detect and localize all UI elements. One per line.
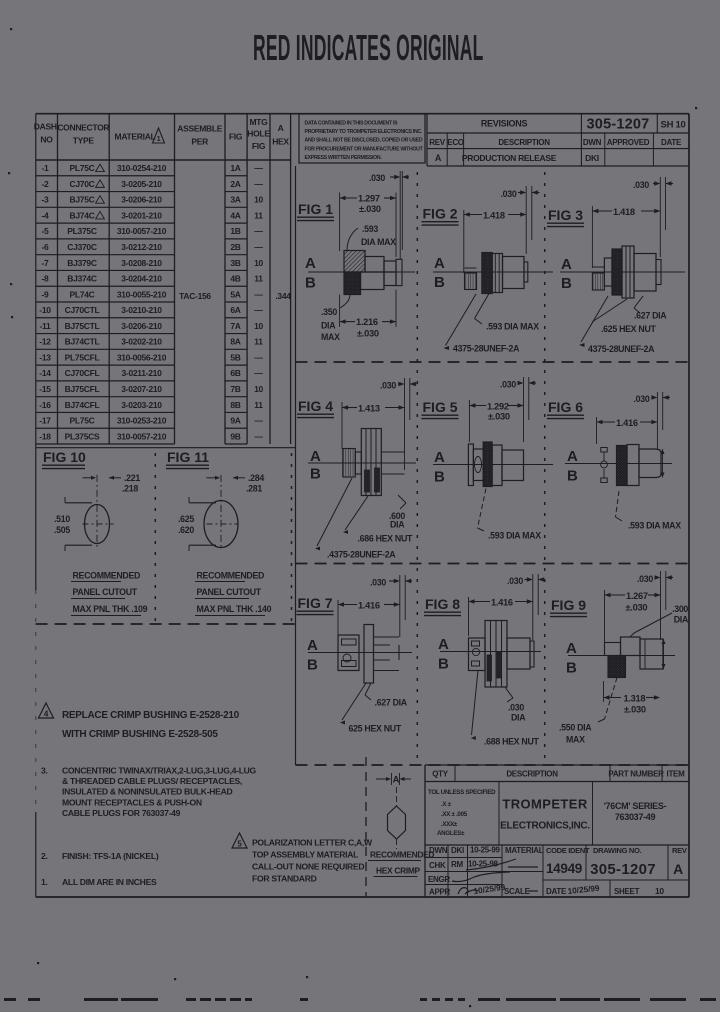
svg-text:BJ74CTL: BJ74CTL bbox=[65, 337, 100, 347]
svg-text:DWN: DWN bbox=[583, 138, 602, 147]
svg-text:DATA CONTAINED IN THIS DOCUMEN: DATA CONTAINED IN THIS DOCUMENT IS bbox=[305, 121, 399, 127]
svg-text:FIG 2: FIG 2 bbox=[423, 206, 458, 222]
fig9 label .300 DIA with leader bbox=[630, 604, 689, 637]
fig8 pin bbox=[530, 641, 534, 667]
svg-text:ELECTRONICS,INC.: ELECTRONICS,INC. bbox=[500, 821, 590, 832]
svg-text:11: 11 bbox=[254, 210, 263, 220]
svg-text:-2: -2 bbox=[42, 179, 50, 189]
svg-text:CABLE PLUGS FOR 763037-49: CABLE PLUGS FOR 763037-49 bbox=[62, 808, 181, 818]
svg-text:B: B bbox=[307, 657, 318, 674]
svg-text:.030: .030 bbox=[633, 180, 649, 190]
panel cutout section bottom dashed bbox=[36, 623, 296, 625]
fig11 flat width marks bbox=[189, 497, 216, 551]
fig7 dim .030 bbox=[370, 575, 412, 637]
svg-text:10/25/99: 10/25/99 bbox=[567, 884, 600, 896]
svg-text:A: A bbox=[278, 123, 284, 133]
fig5 body bbox=[502, 450, 524, 481]
svg-text:1B: 1B bbox=[230, 226, 240, 236]
chk row bbox=[429, 859, 516, 870]
svg-text:.218: .218 bbox=[122, 484, 138, 494]
fig10 dim .221 bbox=[83, 473, 141, 494]
svg-text:.X ±: .X ± bbox=[441, 801, 452, 808]
figure area dashed column separator 1 bbox=[416, 172, 418, 765]
fig2 rear ferrule bbox=[465, 268, 477, 290]
svg-text:PART NUMBER: PART NUMBER bbox=[608, 770, 664, 779]
svg-text:MTG: MTG bbox=[250, 117, 269, 127]
fig10 recommended panel cutout note bbox=[71, 571, 148, 616]
svg-text:CHK: CHK bbox=[429, 861, 446, 870]
scan edge artifact dashes bbox=[4, 998, 716, 1001]
code ident cell bbox=[546, 846, 590, 876]
fig7 jack body bbox=[338, 635, 359, 671]
svg-text:11: 11 bbox=[254, 400, 263, 410]
svg-text:3-0204-210: 3-0204-210 bbox=[121, 274, 162, 284]
fig8 centerline bbox=[440, 651, 541, 653]
note 1 text bbox=[41, 877, 157, 887]
svg-text:BJ379C: BJ379C bbox=[67, 258, 97, 268]
svg-text:.625: .625 bbox=[178, 514, 194, 524]
fig1 label .350 DIA MAX with leader bbox=[321, 295, 350, 343]
svg-text:.593: .593 bbox=[362, 224, 378, 234]
svg-text:2.: 2. bbox=[41, 851, 48, 861]
svg-text:FIG 10: FIG 10 bbox=[43, 449, 86, 465]
fig8 label bbox=[424, 596, 461, 616]
fig2 knurl (hatched) bbox=[482, 253, 492, 294]
fig1 A B labels bbox=[305, 255, 316, 292]
svg-text:.550 DIA: .550 DIA bbox=[559, 723, 592, 733]
fig8 label .688 HEX NUT with leader bbox=[471, 670, 540, 747]
svg-text:.625 HEX NUT: .625 HEX NUT bbox=[601, 324, 657, 334]
svg-text:CJ70CFL: CJ70CFL bbox=[65, 368, 100, 378]
svg-text:.593 DIA MAX: .593 DIA MAX bbox=[628, 521, 681, 531]
revisions block grid bbox=[427, 114, 689, 166]
svg-text:RECOMMENDED: RECOMMENDED bbox=[197, 571, 265, 581]
fig6 label .593 DIA MAX with dashed leader bbox=[616, 491, 682, 531]
svg-text:A: A bbox=[567, 448, 578, 465]
svg-text:7B: 7B bbox=[230, 384, 240, 394]
svg-text:PL75CFL: PL75CFL bbox=[65, 352, 100, 362]
svg-text:CALL-OUT NONE REQUIRED: CALL-OUT NONE REQUIRED bbox=[252, 862, 364, 872]
fig5 knurl (hatched) bbox=[483, 442, 492, 487]
fig6 shell bbox=[639, 449, 661, 478]
fig3 label .625 HEX NUT with leader bbox=[592, 299, 657, 334]
fig8 label .030 DIA with leader bbox=[505, 687, 526, 723]
svg-text:-10: -10 bbox=[39, 305, 51, 315]
svg-text:RECOMMENDED: RECOMMENDED bbox=[73, 571, 141, 581]
fig4 centerline bbox=[308, 462, 416, 464]
svg-text:FIG 7: FIG 7 bbox=[298, 595, 333, 611]
fig1 dim .030 bbox=[369, 171, 409, 260]
svg-text:DKI: DKI bbox=[585, 153, 599, 163]
svg-text:HEX CRIMP: HEX CRIMP bbox=[376, 866, 421, 876]
svg-text:REPLACE CRIMP BUSHING E-2528-2: REPLACE CRIMP BUSHING E-2528-210 bbox=[62, 710, 240, 721]
svg-text:763037-49: 763037-49 bbox=[615, 812, 656, 822]
svg-text:PANEL CUTOUT: PANEL CUTOUT bbox=[197, 587, 262, 597]
svg-text:1.416: 1.416 bbox=[616, 418, 638, 428]
svg-text:—: — bbox=[254, 305, 263, 315]
svg-text:1.318: 1.318 bbox=[624, 694, 646, 704]
svg-text:3-0205-210: 3-0205-210 bbox=[121, 179, 162, 189]
svg-text:3-0206-210: 3-0206-210 bbox=[121, 321, 162, 331]
svg-text:±.030: ±.030 bbox=[626, 603, 648, 613]
fig4 rear tube bbox=[343, 449, 356, 478]
svg-text:TROMPETER: TROMPETER bbox=[502, 797, 587, 812]
svg-text:DESCRIPTION: DESCRIPTION bbox=[506, 770, 558, 779]
appr row with signature bbox=[429, 883, 506, 897]
note 3 text bbox=[41, 766, 257, 818]
svg-text:PL75C: PL75C bbox=[70, 163, 95, 173]
fig1 body bbox=[361, 257, 385, 290]
fig2 nose bbox=[524, 262, 528, 282]
svg-text:.284: .284 bbox=[248, 473, 264, 483]
fig7 centerline bbox=[308, 652, 412, 654]
fig6 bayonet lugs bbox=[601, 448, 608, 483]
svg-text:2A: 2A bbox=[230, 179, 240, 189]
svg-text:DESCRIPTION: DESCRIPTION bbox=[498, 138, 550, 147]
fig2 ring bbox=[492, 254, 502, 293]
fig3 label 4375-28UNEF-2A with leader bbox=[579, 296, 655, 354]
svg-text:TYPE: TYPE bbox=[73, 136, 95, 146]
svg-text:PRODUCTION RELEASE: PRODUCTION RELEASE bbox=[462, 153, 557, 163]
fig4 mid collar bbox=[355, 452, 361, 474]
hex crimp A dimension bbox=[376, 773, 411, 786]
svg-text:BJ75CTL: BJ75CTL bbox=[65, 321, 100, 331]
svg-text:5B: 5B bbox=[230, 352, 240, 362]
svg-text:.686 HEX NUT: .686 HEX NUT bbox=[358, 534, 414, 544]
svg-text:—: — bbox=[254, 416, 263, 426]
svg-text:TOP ASSEMBLY MATERIAL: TOP ASSEMBLY MATERIAL bbox=[252, 850, 358, 860]
svg-text:DIA: DIA bbox=[511, 713, 526, 723]
fig1 label bbox=[297, 201, 334, 221]
fig3 A B labels bbox=[561, 256, 572, 292]
banner: RED INDICATES ORIGINAL bbox=[253, 28, 484, 69]
svg-text:SH 10: SH 10 bbox=[661, 120, 686, 131]
svg-text:.030: .030 bbox=[500, 380, 516, 390]
fig8 lockwasher segments (dark) bbox=[487, 652, 502, 681]
svg-text:1.418: 1.418 bbox=[483, 211, 505, 221]
svg-text:1: 1 bbox=[157, 136, 161, 143]
svg-text:—: — bbox=[254, 431, 263, 441]
svg-text:DATE: DATE bbox=[661, 138, 682, 147]
fig4 dim 1.413 bbox=[342, 402, 405, 449]
svg-text:3A: 3A bbox=[230, 195, 240, 205]
fig4 front shell outline bbox=[381, 452, 404, 474]
svg-text:1.416: 1.416 bbox=[491, 598, 513, 608]
svg-text:10: 10 bbox=[254, 195, 263, 205]
svg-text:FIG 11: FIG 11 bbox=[167, 449, 209, 465]
tolerance block bbox=[428, 789, 496, 837]
svg-text:A: A bbox=[305, 255, 316, 272]
svg-text:.627 DIA: .627 DIA bbox=[634, 311, 667, 321]
svg-text:-18: -18 bbox=[39, 431, 51, 441]
svg-text:PL75C: PL75C bbox=[70, 416, 95, 426]
date cell bbox=[546, 884, 600, 896]
fig1 knurled nut (hatched) bbox=[344, 251, 365, 273]
svg-text:AND SHALL NOT BE DISCLOSED, CO: AND SHALL NOT BE DISCLOSED, COPIED OR US… bbox=[305, 138, 423, 144]
svg-text:A: A bbox=[673, 861, 683, 877]
svg-text:9B: 9B bbox=[230, 431, 240, 441]
svg-text:-14: -14 bbox=[39, 368, 51, 378]
svg-text:4375-28UNEF-2A: 4375-28UNEF-2A bbox=[588, 344, 655, 354]
svg-text:1.: 1. bbox=[41, 877, 48, 887]
fig9 dim 1.267 +-.030 bbox=[605, 590, 661, 642]
svg-text:B: B bbox=[434, 469, 445, 486]
fig7 label 625 HEX NUT with leader bbox=[340, 683, 402, 734]
svg-text:REVISIONS: REVISIONS bbox=[481, 119, 528, 129]
fig10 dim .510 bbox=[54, 514, 70, 535]
fig3 rear ferrule bbox=[592, 267, 604, 290]
svg-text:CJ370C: CJ370C bbox=[67, 242, 97, 252]
fig8 A B labels bbox=[438, 636, 449, 673]
svg-text:'76CM' SERIES-: '76CM' SERIES- bbox=[604, 801, 667, 811]
fig11 label bbox=[166, 449, 209, 469]
svg-text:-5: -5 bbox=[42, 226, 50, 236]
svg-text:-13: -13 bbox=[39, 352, 51, 362]
svg-text:.030: .030 bbox=[501, 189, 517, 199]
svg-text:POLARIZATION LETTER C,A,W: POLARIZATION LETTER C,A,W bbox=[252, 838, 373, 848]
svg-text:.627 DIA: .627 DIA bbox=[375, 698, 408, 708]
svg-text:FIG 5: FIG 5 bbox=[423, 399, 458, 415]
note 4 text bbox=[62, 710, 240, 740]
sheet right border bbox=[688, 114, 690, 897]
svg-text:DATE: DATE bbox=[546, 887, 567, 896]
hex crimp caption bbox=[368, 850, 434, 877]
fig9 rear body upper bbox=[605, 643, 621, 656]
svg-text:A: A bbox=[561, 256, 572, 273]
fig11 recommended panel cutout note bbox=[195, 571, 272, 616]
svg-text:11: 11 bbox=[254, 337, 263, 347]
svg-text:9A: 9A bbox=[230, 416, 240, 426]
svg-text:1.416: 1.416 bbox=[358, 601, 380, 611]
svg-text:REV: REV bbox=[672, 846, 687, 855]
fig9 A B labels bbox=[566, 640, 577, 677]
svg-text:3-0202-210: 3-0202-210 bbox=[121, 337, 162, 347]
svg-text:BJ75CFL: BJ75CFL bbox=[65, 384, 100, 394]
fig5 rear flange plate bbox=[468, 444, 473, 486]
svg-text:10: 10 bbox=[655, 886, 664, 896]
svg-text:-9: -9 bbox=[42, 289, 50, 299]
svg-text:4375-28UNEF-2A: 4375-28UNEF-2A bbox=[453, 344, 520, 354]
fig3 dim 1.418 bbox=[592, 206, 660, 268]
svg-text:.030: .030 bbox=[637, 574, 653, 584]
panel cutout section divider dashed bbox=[154, 453, 156, 624]
svg-text:.030: .030 bbox=[370, 578, 386, 588]
svg-text:-15: -15 bbox=[39, 384, 51, 394]
svg-text:MAX: MAX bbox=[566, 735, 585, 745]
revision row A bbox=[435, 153, 599, 163]
svg-text:±.030: ±.030 bbox=[488, 411, 510, 421]
svg-text:3-0206-210: 3-0206-210 bbox=[121, 195, 162, 205]
fig5 A B labels bbox=[434, 449, 445, 486]
revisions column headers bbox=[429, 138, 682, 147]
svg-text:305-1207: 305-1207 bbox=[590, 861, 656, 878]
fig2 A B labels bbox=[434, 255, 445, 291]
fig6 body bbox=[627, 445, 639, 486]
fig4 dim .030 bbox=[380, 378, 417, 470]
fig6 dim 1.416 bbox=[597, 417, 658, 444]
svg-text:.505: .505 bbox=[54, 525, 70, 535]
hex crimp column dashed boundary bbox=[365, 757, 367, 897]
svg-text:5A: 5A bbox=[230, 289, 240, 299]
svg-text:MATERIAL: MATERIAL bbox=[115, 132, 156, 142]
fig9 centerline bbox=[568, 655, 675, 657]
svg-text:.XXX±: .XXX± bbox=[441, 821, 458, 828]
svg-text:4: 4 bbox=[44, 710, 49, 719]
svg-text:6B: 6B bbox=[230, 368, 240, 378]
svg-text:1.297: 1.297 bbox=[358, 194, 380, 204]
svg-text:DASH-: DASH- bbox=[34, 122, 60, 132]
svg-text:QTY: QTY bbox=[432, 770, 449, 779]
svg-text:PER: PER bbox=[191, 137, 208, 147]
fig7 front body bbox=[374, 637, 400, 671]
svg-text:B: B bbox=[566, 660, 577, 677]
title block main grid bbox=[425, 782, 689, 898]
svg-text:310-0254-210: 310-0254-210 bbox=[117, 163, 167, 173]
parts table grid bbox=[36, 114, 291, 444]
fig9 label .550 DIA MAX with dashed leader bbox=[559, 678, 617, 745]
svg-text:1.267: 1.267 bbox=[626, 591, 648, 601]
fig9 dim .030 bbox=[637, 571, 673, 640]
fig10 flat width marks bbox=[65, 497, 92, 551]
svg-text:10: 10 bbox=[254, 258, 263, 268]
hex crimp hexagon bbox=[388, 806, 406, 839]
svg-text:-7: -7 bbox=[42, 258, 50, 268]
svg-text:PROPRIETARY TO TROMPETER ELECT: PROPRIETARY TO TROMPETER ELECTRONICS INC… bbox=[305, 129, 423, 135]
svg-text:CONNECTOR: CONNECTOR bbox=[57, 123, 109, 133]
proprietary notice box bbox=[299, 114, 425, 163]
svg-text:ANGLES±: ANGLES± bbox=[437, 830, 465, 837]
svg-text:FINISH: TFS-1A (NICKEL): FINISH: TFS-1A (NICKEL) bbox=[62, 851, 159, 861]
svg-text:SHEET: SHEET bbox=[614, 887, 640, 896]
figure area dashed bottom bbox=[296, 764, 690, 766]
panel cutout section right dashed bbox=[291, 453, 293, 624]
svg-text:A: A bbox=[434, 255, 445, 272]
svg-text:310-0253-210: 310-0253-210 bbox=[117, 416, 167, 426]
svg-text:DIA MAX: DIA MAX bbox=[361, 237, 396, 247]
svg-text:8B: 8B bbox=[230, 400, 240, 410]
fig10 centerlines bbox=[83, 475, 114, 550]
fig10 label bbox=[42, 449, 86, 469]
fig1 pin bbox=[396, 259, 402, 285]
note 5 text bbox=[252, 838, 373, 884]
svg-text:±.030: ±.030 bbox=[624, 705, 646, 715]
svg-text:RED INDICATES ORIGINAL: RED INDICATES ORIGINAL bbox=[253, 28, 484, 69]
svg-text:DIA: DIA bbox=[390, 520, 405, 530]
parts table header bbox=[34, 117, 290, 151]
fig4 label bbox=[297, 398, 334, 418]
svg-text:BJ74CFL: BJ74CFL bbox=[65, 400, 100, 410]
svg-text:DIA: DIA bbox=[321, 321, 336, 331]
svg-text:.300: .300 bbox=[672, 604, 688, 614]
svg-text:HEX: HEX bbox=[272, 137, 289, 147]
svg-text:TAC-156: TAC-156 bbox=[179, 291, 211, 301]
svg-text:A: A bbox=[435, 153, 442, 163]
sheet left border bbox=[35, 114, 37, 897]
doc number 305-1207 bbox=[587, 117, 650, 133]
svg-text:310-0055-210: 310-0055-210 bbox=[117, 289, 167, 299]
sheet bottom border bbox=[36, 896, 689, 898]
svg-text:.221: .221 bbox=[124, 473, 140, 483]
figure area left boundary bbox=[295, 166, 297, 765]
svg-text:REV: REV bbox=[429, 138, 446, 147]
fig2 label .593 DIA MAX with leader bbox=[475, 294, 540, 332]
fig9 mid body bbox=[621, 637, 641, 656]
fig1 dim 1.297 +-.030 bbox=[340, 193, 396, 258]
svg-text:PANEL CUTOUT: PANEL CUTOUT bbox=[73, 587, 138, 597]
svg-text:8A: 8A bbox=[230, 337, 240, 347]
svg-text:10: 10 bbox=[254, 384, 263, 394]
svg-text:A: A bbox=[434, 449, 445, 466]
fig8 dim .030 bbox=[507, 574, 545, 640]
svg-text:4B: 4B bbox=[230, 274, 240, 284]
svg-text:.030: .030 bbox=[634, 394, 650, 404]
svg-text:RM: RM bbox=[451, 860, 463, 869]
panel cutout section top line bbox=[36, 447, 296, 449]
svg-text:5: 5 bbox=[237, 840, 242, 849]
fig11 dim .284 bbox=[207, 473, 265, 494]
svg-text:B: B bbox=[310, 466, 321, 483]
svg-text:APPR: APPR bbox=[429, 888, 451, 897]
svg-text:DIA: DIA bbox=[674, 615, 689, 625]
svg-text:-1: -1 bbox=[42, 163, 50, 173]
fig7 label bbox=[297, 595, 334, 615]
svg-text:.030: .030 bbox=[380, 381, 396, 391]
svg-text:—: — bbox=[254, 352, 263, 362]
svg-text:1.418: 1.418 bbox=[613, 207, 635, 217]
fig11 cutout hole bbox=[204, 501, 238, 548]
svg-text:.688 HEX NUT: .688 HEX NUT bbox=[484, 737, 540, 747]
svg-text:MOUNT RECEPTACLES & PUSH-ON: MOUNT RECEPTACLES & PUSH-ON bbox=[62, 797, 202, 807]
svg-text:.620: .620 bbox=[178, 525, 194, 535]
svg-text:1.216: 1.216 bbox=[356, 317, 378, 327]
svg-text:-8: -8 bbox=[42, 274, 50, 284]
svg-text:DRAWING NO.: DRAWING NO. bbox=[593, 846, 642, 855]
svg-text:3-0201-210: 3-0201-210 bbox=[121, 210, 162, 220]
svg-text:A: A bbox=[393, 775, 400, 786]
svg-text:B: B bbox=[305, 275, 316, 292]
svg-text:HOLE: HOLE bbox=[247, 129, 270, 139]
note 2 text bbox=[41, 851, 159, 861]
svg-text:.030: .030 bbox=[369, 173, 385, 183]
svg-text:—: — bbox=[254, 226, 263, 236]
svg-text:FIG: FIG bbox=[229, 132, 243, 142]
svg-text:BJ74C: BJ74C bbox=[70, 210, 95, 220]
fig5 ring bbox=[492, 445, 502, 486]
svg-text:3-0207-210: 3-0207-210 bbox=[121, 384, 162, 394]
svg-text:B: B bbox=[438, 656, 449, 673]
fig2 label bbox=[422, 206, 459, 226]
svg-text:MAX: MAX bbox=[321, 332, 340, 342]
fig5 label bbox=[422, 399, 459, 419]
engr row with signature bbox=[428, 872, 510, 884]
fig5 dim 1.292 +-.030 bbox=[469, 400, 523, 442]
svg-text:.344: .344 bbox=[275, 291, 291, 301]
svg-text:MAX PNL THK .109: MAX PNL THK .109 bbox=[73, 604, 148, 614]
svg-text:625 HEX NUT: 625 HEX NUT bbox=[349, 724, 402, 734]
svg-text:CODE IDENT: CODE IDENT bbox=[546, 846, 590, 855]
svg-text:FIG 4: FIG 4 bbox=[298, 398, 333, 414]
svg-text:3-0210-210: 3-0210-210 bbox=[121, 305, 162, 315]
title block qty strip grid bbox=[425, 765, 689, 897]
svg-text:.593 DIA MAX: .593 DIA MAX bbox=[488, 531, 541, 541]
fig4 label .600 DIA with leader bbox=[389, 495, 406, 530]
svg-text:ASSEMBLE: ASSEMBLE bbox=[177, 124, 222, 134]
trompeter logo text bbox=[500, 797, 590, 832]
svg-text:ENGR: ENGR bbox=[428, 875, 450, 884]
svg-text:FOR PROCUREMENT OR MANUFACTURE: FOR PROCUREMENT OR MANUFACTURE WITHOUT bbox=[305, 146, 424, 152]
svg-text:.XX ± .005: .XX ± .005 bbox=[441, 811, 468, 818]
svg-text:B: B bbox=[561, 275, 572, 292]
